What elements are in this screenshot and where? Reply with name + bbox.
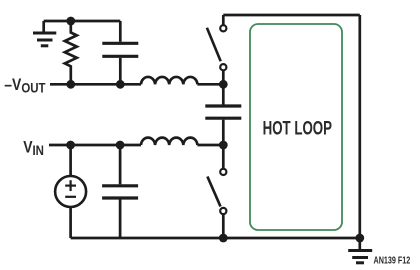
wire L1 to switch node: [197, 83, 223, 86]
label VIN: [23, 138, 44, 158]
switch S2 (bottom): [207, 145, 226, 238]
node junction (switch line / VIN): [219, 141, 228, 150]
capacitor C1 (output cap): [102, 21, 138, 84]
node junction (bottom rail / right vertical): [355, 234, 364, 243]
node junction (resistor top): [66, 17, 75, 26]
node junction (-VOUT rail / resistor): [66, 80, 75, 89]
wire VIN rail: [49, 144, 141, 147]
svg-text:–VOUT: –VOUT: [4, 76, 45, 96]
node junction (-VOUT rail / C1): [116, 80, 125, 89]
wire bottom rail: [71, 237, 360, 240]
node junction (VIN rail / C2): [116, 141, 125, 150]
wire right vertical: [358, 15, 361, 238]
ground (top left): [33, 21, 56, 46]
wire top-left rail: [44, 20, 121, 23]
svg-text:VIN: VIN: [23, 138, 44, 158]
wire top rail (switch node to right): [223, 14, 359, 17]
node junction (bottom rail / switch line): [219, 234, 228, 243]
node junction (VIN rail / source): [66, 141, 75, 150]
ground (bottom right): [348, 238, 372, 263]
voltage source V1: [55, 145, 86, 238]
resistor R1: [65, 21, 77, 84]
switch S1 (top): [207, 15, 227, 84]
label -VOUT: [4, 76, 45, 96]
capacitor C3 (hot loop cap): [205, 84, 241, 145]
inductor L2: [141, 138, 197, 145]
svg-text:AN139 F12: AN139 F12: [374, 254, 411, 266]
node junction (switch line / -VOUT): [219, 80, 228, 89]
capacitor C2 (input cap): [102, 145, 138, 238]
wire -VOUT rail: [50, 83, 141, 86]
label HOT LOOP: [263, 117, 332, 139]
hot loop boundary box: [250, 24, 342, 230]
svg-text:HOT LOOP: HOT LOOP: [263, 117, 332, 139]
label AN139 F12: [374, 254, 411, 266]
inductor L1: [141, 77, 197, 84]
wire L2 to switch node: [197, 144, 223, 147]
